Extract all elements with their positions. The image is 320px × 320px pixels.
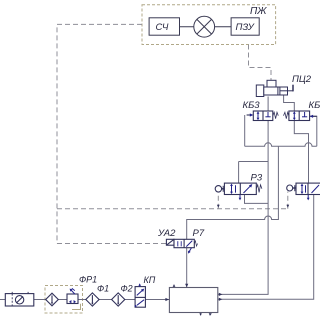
svg-text:КП: КП: [144, 275, 156, 285]
svg-text:Ф2: Ф2: [121, 284, 133, 294]
svg-text:КБ4: КБ4: [309, 100, 320, 111]
svg-text:ФР1: ФР1: [79, 275, 97, 285]
svg-text:ПЖ: ПЖ: [250, 6, 267, 17]
svg-text:Р3: Р3: [251, 173, 263, 184]
svg-text:СЧ: СЧ: [156, 22, 169, 33]
svg-text:Р7: Р7: [193, 228, 205, 239]
svg-text:КБ3: КБ3: [243, 100, 261, 111]
svg-text:ПЦ2: ПЦ2: [292, 74, 312, 85]
svg-text:ПЗУ: ПЗУ: [236, 22, 255, 33]
svg-text:Ф1: Ф1: [97, 284, 109, 294]
svg-text:УА2: УА2: [157, 228, 176, 239]
